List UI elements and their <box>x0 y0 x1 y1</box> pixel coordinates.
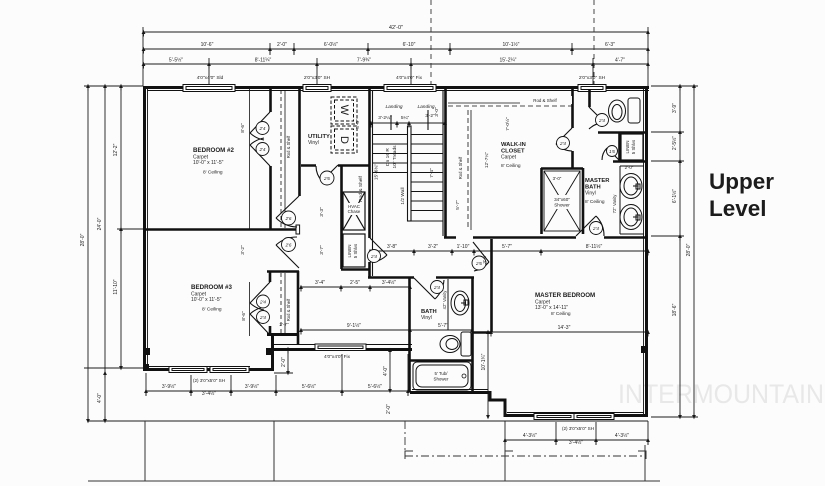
exterior walls <box>143 86 649 417</box>
dimension lines group <box>84 27 698 445</box>
svg-text:3'-4½": 3'-4½" <box>569 439 583 446</box>
svg-text:2'4: 2'4 <box>370 254 377 259</box>
door walkin <box>556 128 572 151</box>
svg-text:Vinyl: Vinyl <box>585 191 596 197</box>
svg-text:1'6: 1'6 <box>609 149 615 154</box>
svg-text:3'-8": 3'-8" <box>387 244 397 250</box>
footing corner marks <box>405 451 646 459</box>
svg-text:7'-4": 7'-4" <box>429 168 435 178</box>
master 14'-3 dim line <box>491 331 648 333</box>
svg-text:3'-2": 3'-2" <box>425 113 435 119</box>
W/D dashed boxes <box>331 97 357 153</box>
walkin rod west dashed <box>468 110 471 230</box>
door size circles <box>256 114 618 324</box>
svg-text:3'-0": 3'-0" <box>434 107 440 117</box>
svg-text:2'-7": 2'-7" <box>279 322 289 327</box>
tub <box>413 362 471 390</box>
toilet (water closet room) <box>609 98 641 123</box>
svg-text:5'-7": 5'-7" <box>455 200 461 210</box>
svg-text:2'-5½": 2'-5½" <box>671 136 678 150</box>
svg-text:5'-7": 5'-7" <box>438 323 448 329</box>
svg-text:18'-6": 18'-6" <box>672 303 678 316</box>
svg-text:3'-4½": 3'-4½" <box>382 279 396 286</box>
room label master bath <box>585 178 610 205</box>
master bath vanity <box>620 166 644 234</box>
svg-text:INTERMOUNTAIN: INTERMOUNTAIN <box>618 379 824 409</box>
door bedroom3 closet bifold <box>250 282 270 310</box>
svg-text:4'0"x4'0" Fix: 4'0"x4'0" Fix <box>396 75 423 81</box>
misc rotated dims <box>240 117 511 321</box>
svg-text:2'6: 2'6 <box>285 243 292 248</box>
svg-text:8' Ceiling: 8' Ceiling <box>501 163 521 169</box>
svg-text:2'4: 2'4 <box>259 147 266 152</box>
closet rod lines bedroom3 <box>281 273 285 333</box>
nook vertical wall <box>271 334 274 369</box>
door master bedroom <box>473 242 489 271</box>
dimension text labels: sides (rotated) <box>80 103 692 403</box>
svg-text:7'-9¾": 7'-9¾" <box>357 58 371 64</box>
nook window wall <box>272 348 412 351</box>
shower box <box>541 168 583 234</box>
svg-text:42" Vanity: 42" Vanity <box>442 290 447 310</box>
hall/bath north wall <box>368 276 474 279</box>
svg-text:3'-7": 3'-7" <box>319 245 325 255</box>
svg-text:2'-0": 2'-0" <box>625 165 634 170</box>
svg-text:14'-3": 14'-3" <box>558 325 571 331</box>
door bedroom2 closet bifold <box>250 112 270 140</box>
svg-text:(2) 3'0"x5'0" SH: (2) 3'0"x5'0" SH <box>562 426 594 431</box>
walkin & master bath south wall <box>444 236 648 239</box>
stairs west wall <box>368 89 371 278</box>
room label master bedroom <box>535 292 595 317</box>
svg-text:2'0"x3'0" SH: 2'0"x3'0" SH <box>579 75 606 81</box>
svg-text:2'-0": 2'-0" <box>386 404 392 414</box>
svg-text:5 Shlvs: 5 Shlvs <box>631 139 636 154</box>
svg-text:3'-4½": 3'-4½" <box>202 390 216 397</box>
bath west wall <box>408 277 411 392</box>
svg-text:Landing: Landing <box>385 104 402 110</box>
svg-text:Shower: Shower <box>554 203 570 208</box>
left run treads <box>373 135 407 173</box>
svg-text:2'4: 2'4 <box>592 226 599 231</box>
9'-1 dim line <box>301 329 410 331</box>
master bedroom bottom-left step <box>490 391 505 417</box>
top extension lines <box>142 27 144 86</box>
svg-text:34"x60": 34"x60" <box>554 197 570 202</box>
svg-text:2'4: 2'4 <box>259 126 266 131</box>
exterior wall inner lines <box>147 89 649 414</box>
window: 40x40 Fix stairs <box>384 85 436 92</box>
svg-text:15'-2¼": 15'-2¼" <box>500 58 517 64</box>
bath east wall <box>471 277 474 392</box>
svg-text:6'-3": 6'-3" <box>605 42 615 48</box>
svg-text:Rod & Shelf: Rod & Shelf <box>458 156 463 179</box>
svg-text:W: W <box>338 105 350 116</box>
tub room bottom wall <box>410 391 491 394</box>
half wall rail <box>408 126 412 221</box>
svg-text:Vinyl: Vinyl <box>308 140 319 146</box>
svg-text:4'0"x4'0" Sld: 4'0"x4'0" Sld <box>197 75 224 81</box>
stairs dim line <box>371 122 445 124</box>
bottom-left dim line <box>146 390 408 392</box>
svg-text:2'4: 2'4 <box>598 118 605 123</box>
svg-text:24'-0": 24'-0" <box>97 217 103 230</box>
svg-text:7'-0½": 7'-0½" <box>504 117 511 131</box>
svg-text:Rod & Shelf: Rod & Shelf <box>286 135 291 158</box>
room label utility <box>308 134 330 146</box>
svg-text:1'-10": 1'-10" <box>457 244 470 250</box>
svg-text:3'-0": 3'-0" <box>553 176 562 181</box>
svg-text:8'-6": 8'-6" <box>240 123 246 133</box>
tub north wall <box>410 359 472 362</box>
linen2 box walls <box>613 133 648 162</box>
window: 40x40 Sld bedroom2 <box>183 85 235 92</box>
bedroom3 closet east wall <box>297 271 300 345</box>
svg-text:4'-3½": 4'-3½" <box>615 432 629 439</box>
top dim row3 <box>143 63 648 65</box>
top exterior wall with window gaps <box>143 86 649 89</box>
landing dim line <box>390 115 392 130</box>
left dim lines <box>87 86 89 421</box>
svg-text:8' Ceiling: 8' Ceiling <box>585 199 605 205</box>
4'-0 tub vert dim <box>389 350 391 391</box>
svg-text:4'-7": 4'-7" <box>615 58 625 64</box>
10'-1 master vert dim <box>487 332 489 417</box>
svg-text:3'-5": 3'-5" <box>482 254 488 264</box>
doors <box>250 107 619 335</box>
bedroom2 closet door wall stubs <box>269 88 272 229</box>
door linen master <box>602 148 619 160</box>
top dim line 42'-0" <box>143 31 648 33</box>
svg-text:3'-2¼": 3'-2¼" <box>378 115 392 121</box>
svg-text:2'4: 2'4 <box>433 285 440 290</box>
svg-text:11'-10": 11'-10" <box>113 279 119 294</box>
svg-text:LINEN: LINEN <box>347 245 352 258</box>
svg-text:8' Ceiling: 8' Ceiling <box>203 170 223 176</box>
lower level reference lines <box>88 421 660 481</box>
closet3 bottom wall <box>267 333 299 336</box>
hall dim line <box>370 250 648 252</box>
svg-text:2'4: 2'4 <box>259 315 266 320</box>
bedroom2/3 hall wall with door gaps <box>298 89 301 196</box>
svg-text:28'-0": 28'-0" <box>80 233 86 246</box>
svg-text:10'-6": 10'-6" <box>201 42 214 48</box>
svg-text:15'-6¾": 15'-6¾" <box>374 164 380 181</box>
hvac linen west wall <box>340 165 343 269</box>
master bedroom bottom wall <box>505 414 648 417</box>
svg-text:2'4: 2'4 <box>259 300 266 305</box>
bedroom3 bottom exterior wall <box>143 368 274 371</box>
svg-text:2'6: 2'6 <box>285 216 292 221</box>
hvac linen south wall <box>341 268 369 271</box>
dimension ticks <box>86 30 696 445</box>
svg-text:3'-2": 3'-2" <box>240 245 246 255</box>
svg-text:Carpet: Carpet <box>501 155 517 161</box>
svg-text:3'-3": 3'-3" <box>319 207 325 217</box>
svg-text:3'-2": 3'-2" <box>428 244 438 250</box>
toilet room south wall <box>598 131 648 134</box>
stairs <box>373 90 444 276</box>
walkin east wall <box>571 89 574 168</box>
LINEN 5 shlvs box (hall) <box>343 234 365 267</box>
room label bedroom3 <box>191 284 232 313</box>
LINEN 5 shlvs box (master bath) <box>621 134 643 160</box>
svg-text:10'-0" x 11'-5": 10'-0" x 11'-5" <box>193 160 224 166</box>
svg-text:12'-7¼": 12'-7¼" <box>484 152 490 169</box>
svg-text:4'-0": 4'-0" <box>97 393 103 403</box>
window: 20x30 SH utility <box>303 85 331 92</box>
2'-0 nook dim <box>287 349 289 373</box>
window: (2)30x50 SH bedroom3 pair <box>169 367 249 373</box>
svg-text:3'-9½": 3'-9½" <box>162 383 176 390</box>
svg-text:13'-0" x 14'-11": 13'-0" x 14'-11" <box>535 305 568 311</box>
right exterior wall <box>645 86 648 417</box>
svg-text:2'-0": 2'-0" <box>277 42 287 48</box>
master west wall <box>490 239 493 332</box>
svg-text:Shower: Shower <box>434 377 449 382</box>
svg-text:MASTER: MASTER <box>585 178 610 184</box>
dash-dot footing line <box>405 421 645 456</box>
door hall linen <box>370 238 387 262</box>
closet front line bedroom3 <box>249 282 251 336</box>
stair side wall inner lines <box>372 90 374 276</box>
svg-text:6'-10": 6'-10" <box>403 42 416 48</box>
room label bath <box>421 309 437 321</box>
bath toilet <box>440 332 471 356</box>
dashed reference lines at top <box>431 0 594 86</box>
svg-text:10'-1¾": 10'-1¾" <box>481 353 487 370</box>
svg-text:Rod & Shelf: Rod & Shelf <box>286 298 291 321</box>
svg-text:2'6: 2'6 <box>323 176 330 181</box>
svg-text:8'-6": 8'-6" <box>241 311 247 321</box>
svg-text:LINEN: LINEN <box>625 141 630 154</box>
svg-text:Rod & Shelf: Rod & Shelf <box>533 98 557 103</box>
svg-text:28'-0": 28'-0" <box>686 243 692 256</box>
ground line below plan <box>88 420 648 422</box>
svg-text:Chase: Chase <box>348 209 361 214</box>
svg-text:12'-2": 12'-2" <box>113 143 119 156</box>
svg-text:3'-9": 3'-9" <box>672 103 678 113</box>
closet front line bedroom2 <box>249 88 251 229</box>
interior walls <box>146 88 648 392</box>
wall end jambs (black) <box>143 346 648 370</box>
svg-text:3'-4": 3'-4" <box>315 280 325 286</box>
svg-text:5' Tub/: 5' Tub/ <box>434 371 448 376</box>
wall end cap bed2/3 wall <box>296 225 300 234</box>
room label bedroom2 <box>193 147 234 176</box>
svg-text:BEDROOM #2: BEDROOM #2 <box>193 147 234 154</box>
door bath <box>414 278 444 299</box>
left exterior wall <box>143 86 146 369</box>
svg-text:WALK-IN: WALK-IN <box>501 142 526 148</box>
room label walkin <box>501 142 526 169</box>
hall lower dim line <box>301 286 410 288</box>
svg-text:Level: Level <box>709 196 767 221</box>
svg-text:4'-0": 4'-0" <box>383 366 389 376</box>
svg-text:BEDROOM #3: BEDROOM #3 <box>191 284 232 291</box>
door bedroom2 entry <box>276 196 299 227</box>
svg-text:10'-0" x 11'-5": 10'-0" x 11'-5" <box>191 297 222 303</box>
svg-text:8'-11¼": 8'-11¼" <box>255 58 272 64</box>
top dim row2 <box>143 48 648 50</box>
svg-text:Vinyl: Vinyl <box>421 315 432 321</box>
svg-text:3'-9½": 3'-9½" <box>245 383 259 390</box>
dimension text labels: interior and bottom <box>162 243 629 446</box>
svg-text:1/2 Wall: 1/2 Wall <box>400 187 406 204</box>
stairs east / walkin west wall <box>444 89 447 237</box>
right run treads <box>411 135 443 222</box>
svg-text:2'0"x3'0" SH: 2'0"x3'0" SH <box>304 75 331 81</box>
svg-text:42'-0": 42'-0" <box>389 25 403 31</box>
svg-text:6'-1½": 6'-1½" <box>671 189 678 203</box>
toilet room west wall <box>588 89 591 107</box>
svg-text:Upper: Upper <box>709 169 774 194</box>
svg-text:5'-6½": 5'-6½" <box>302 383 316 390</box>
svg-text:5'-7": 5'-7" <box>502 244 512 250</box>
dimension text labels: top rows <box>169 25 625 81</box>
svg-text:2'6: 2'6 <box>475 261 482 266</box>
door bedroom3 entry <box>276 237 299 268</box>
svg-text:5'-6½": 5'-6½" <box>368 383 382 390</box>
svg-text:MASTER BEDROOM: MASTER BEDROOM <box>535 292 595 299</box>
stairs texts <box>358 104 440 205</box>
HVAC chase box <box>343 192 365 230</box>
svg-text:Dn 16 R: Dn 16 R <box>385 148 391 166</box>
svg-text:8' Ceiling: 8' Ceiling <box>202 307 222 313</box>
svg-text:4'-3½": 4'-3½" <box>523 432 537 439</box>
window: 20x30 SH master bath <box>578 85 606 92</box>
door master bath <box>576 216 604 236</box>
bedroom3 closet walls <box>267 272 299 337</box>
door utility <box>316 165 338 181</box>
svg-text:2'4: 2'4 <box>559 141 566 146</box>
svg-text:9'-1½": 9'-1½" <box>347 322 361 329</box>
utility south wall <box>301 164 369 167</box>
window: 40x40 Fix nook <box>315 344 366 360</box>
svg-text:8'-11½": 8'-11½" <box>586 243 603 250</box>
bath 5'-7 dim line <box>410 329 472 331</box>
svg-text:D: D <box>338 136 350 144</box>
door toilet room <box>589 107 605 129</box>
master west jog wall <box>473 331 491 334</box>
svg-text:5 Shlvs: 5 Shlvs <box>353 243 358 258</box>
bottom-right dim line <box>504 421 506 445</box>
svg-text:2'-0": 2'-0" <box>281 357 287 367</box>
svg-text:Landing: Landing <box>417 104 434 110</box>
svg-text:72" Vanity: 72" Vanity <box>612 194 617 214</box>
right dim lines <box>679 86 681 417</box>
svg-text:5'-5½": 5'-5½" <box>169 57 183 64</box>
bath vanity and sink <box>448 279 469 330</box>
svg-text:2'-5": 2'-5" <box>350 280 360 286</box>
svg-text:8' Ceiling: 8' Ceiling <box>551 311 571 317</box>
shower X and label <box>544 171 580 231</box>
svg-text:6'-0½": 6'-0½" <box>324 41 338 48</box>
closet rod lines bedroom2 <box>281 90 285 228</box>
window: (2)30x50 SH master pair <box>534 414 614 420</box>
svg-text:(2) 3'0"x5'0" SH: (2) 3'0"x5'0" SH <box>193 378 225 383</box>
wall bedroom2/bedroom3 <box>146 228 296 231</box>
svg-text:4'0"x4'0" Fix: 4'0"x4'0" Fix <box>324 354 351 360</box>
svg-text:5'-5": 5'-5" <box>355 119 361 129</box>
svg-text:10'-1½": 10'-1½" <box>503 41 520 48</box>
walkin rod north dashed <box>448 103 572 106</box>
svg-text:5¼": 5¼" <box>401 115 410 121</box>
svg-text:10" Treads: 10" Treads <box>392 145 398 169</box>
